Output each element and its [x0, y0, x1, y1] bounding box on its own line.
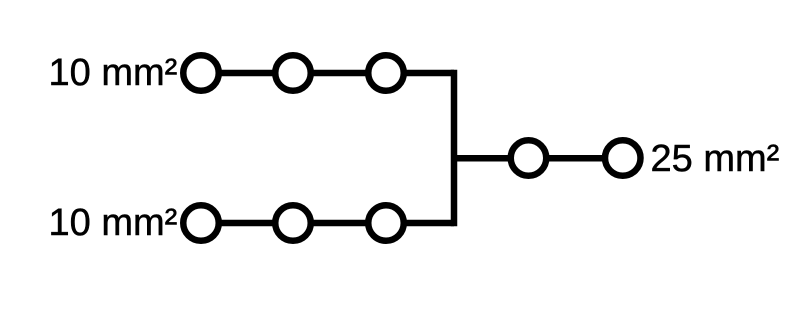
terminal circle bottom 1	[183, 205, 219, 241]
wire vertical junction	[451, 70, 458, 227]
terminal circle top 2	[275, 55, 311, 91]
svg-text:25 mm²: 25 mm²	[651, 138, 780, 180]
svg-text:10 mm²: 10 mm²	[49, 202, 178, 244]
terminal circle top 3	[368, 55, 404, 91]
terminal circle top 1	[183, 55, 219, 91]
wire bottom branch horizontal	[201, 220, 454, 227]
svg-text:10 mm²: 10 mm²	[49, 52, 178, 94]
terminal circle bottom 2	[275, 205, 311, 241]
wire output branch horizontal	[454, 155, 623, 162]
terminal circle output 1	[511, 140, 547, 176]
terminal circle bottom 3	[368, 205, 404, 241]
terminal circle output 2	[605, 140, 641, 176]
wire top branch horizontal	[201, 70, 454, 77]
